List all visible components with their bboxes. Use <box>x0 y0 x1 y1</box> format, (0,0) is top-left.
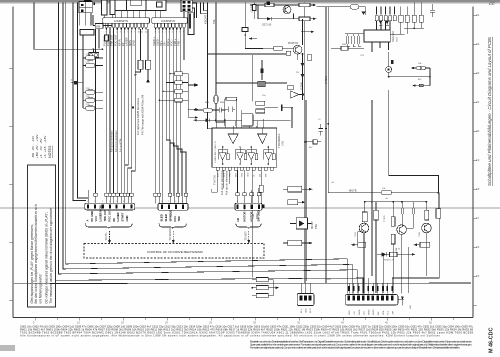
opto box U40 <box>290 218 311 229</box>
svg-text:TRK OUT: TRK OUT <box>110 34 114 46</box>
svg-text:Schaltpläne und Platinenabbild: Schaltpläne und Platinenabbildungen · Ci… <box>487 36 492 186</box>
resistor R301 <box>362 212 367 222</box>
svg-text:2: 2 <box>168 201 169 203</box>
svg-text:LASER: LASER <box>116 212 120 221</box>
svg-text:S-TDK: S-TDK <box>324 76 328 84</box>
op-amp cell 2 <box>235 147 246 165</box>
svg-text:KW(P) .47: KW(P) .47 <box>384 259 395 261</box>
wire long vertical x63 <box>63 3 352 294</box>
resistor R95 + arrow <box>283 186 313 245</box>
left ruler ticks <box>9 68 13 300</box>
electrolytic C210 <box>261 69 264 73</box>
wire long vertical x77.5 <box>78 3 89 198</box>
svg-text:4: 4 <box>258 201 259 203</box>
svg-text:20: 20 <box>476 129 480 133</box>
wire base <box>263 47 293 49</box>
ladder rail arrow <box>188 84 194 86</box>
comb wires from strip X2 <box>156 29 186 196</box>
cap C80 on bus <box>305 124 323 144</box>
IC drop wire <box>371 100 373 276</box>
connector A brace <box>86 224 133 229</box>
svg-text:um Näherungswerte!: um Näherungswerte! <box>39 274 43 304</box>
resistor R303 <box>391 217 395 227</box>
base resistor R205 <box>274 46 282 50</box>
extra right-top components <box>404 3 435 30</box>
svg-text:CONTROL OF CD DRIVE MECHANISM: CONTROL OF CD DRIVE MECHANISM <box>147 250 203 254</box>
wire q4 <box>166 29 170 193</box>
svg-text:1: 1 <box>87 201 88 203</box>
wire bus vertical x216 <box>216 3 287 83</box>
svg-text:3: 3 <box>175 201 176 203</box>
op-amp triangle A <box>228 134 238 144</box>
wire p10 (through R110) <box>140 29 142 61</box>
resistor R203 <box>299 17 310 21</box>
svg-text:GND: GND <box>248 172 250 177</box>
resistor R201 <box>265 3 274 7</box>
small arrows mid <box>132 107 199 119</box>
svg-text:AF R: AF R <box>309 308 312 313</box>
resistor R62 vertical <box>259 185 263 192</box>
trio labels <box>355 188 421 262</box>
cap C215 <box>265 105 293 111</box>
op-amp U30 body <box>212 128 277 167</box>
svg-text:GND: GND <box>349 310 351 315</box>
wire bus x216 continues <box>216 83 225 122</box>
connector D label <box>300 308 312 313</box>
resistor R80 <box>313 140 317 144</box>
resistor R50 pill <box>203 108 212 112</box>
svg-text:GN5: GN5 <box>282 140 285 146</box>
svg-text:LD: LD <box>236 218 240 222</box>
feeder wire <box>82 35 84 108</box>
wire step <box>389 90 439 193</box>
svg-text:TO MOT: TO MOT <box>245 231 248 241</box>
IC pin label column inside left <box>215 141 217 163</box>
svg-text:M 46-CDC: M 46-CDC <box>489 327 495 353</box>
connector K1 pins <box>81 0 190 12</box>
svg-text:DC-voltages measured against m: DC-voltages measured against minus termi… <box>45 212 49 304</box>
resistor R112 <box>419 15 423 22</box>
connector K1 housing <box>79 2 92 13</box>
wires down left <box>252 55 254 101</box>
svg-text:SLED: SLED <box>160 214 164 221</box>
wire lower rail <box>258 18 313 20</box>
wire L1 <box>95 29 97 193</box>
resistor R90 <box>382 191 392 195</box>
connector D wires up <box>301 281 310 294</box>
emitter wire <box>297 54 299 60</box>
top small resistor R102 <box>350 5 359 9</box>
wire bus pair x304.3 <box>303 3 305 284</box>
svg-text:4: 4 <box>182 201 183 203</box>
transistor T303 <box>422 223 432 233</box>
transistor T202 <box>293 45 302 54</box>
IC2 extra bottom wires <box>212 170 230 192</box>
diode D202 <box>301 63 305 67</box>
R40x feed wires <box>252 280 273 296</box>
wire bus y280.3 <box>56 252 364 294</box>
pin numbers row <box>105 31 185 33</box>
box P <box>288 85 294 89</box>
wire row 1 <box>197 109 225 111</box>
diode D50 <box>206 118 210 122</box>
svg-text:SLED: SLED <box>164 214 168 221</box>
wire to comparator <box>388 73 390 77</box>
wire trimmer feed <box>93 49 95 52</box>
svg-text:1733: 1733 <box>86 104 90 106</box>
svg-text:24: 24 <box>476 13 480 17</box>
rail wire y5 <box>250 4 313 6</box>
wire p2 <box>109 29 111 193</box>
cap C110 <box>430 4 435 17</box>
svg-text:1734: 1734 <box>86 62 90 64</box>
wire p8 <box>128 29 132 193</box>
svg-text:Foil opt on elevtrwise: Foil opt on elevtrwise <box>220 170 224 195</box>
svg-text:LED: LED <box>410 304 412 309</box>
svg-text:PU GND: PU GND <box>103 36 107 46</box>
right ruler ticks with grid numbers <box>473 15 477 305</box>
svg-text:MUTE: MUTE <box>373 308 375 315</box>
svg-text:TRL: TRL <box>212 19 216 24</box>
resistor RP1 <box>86 56 96 60</box>
svg-text:PN The range with KDM F/Osc.SM: PN The range with KDM F/Osc.SM <box>141 95 145 135</box>
resistor R210 dark <box>258 81 266 87</box>
svg-text:5: 5 <box>116 201 117 203</box>
IC bottom pins <box>372 42 389 52</box>
svg-text:SP +: SP + <box>159 40 163 46</box>
svg-text:KB: KB <box>96 24 100 28</box>
resistor RP3 <box>86 90 96 94</box>
svg-text:-BR -8V ... -12V: -BR -8V ... -12V <box>31 136 35 158</box>
svg-text:CT635: CT635 <box>384 215 386 222</box>
right vertical <box>392 193 439 278</box>
collector wire down <box>302 53 304 100</box>
svg-text:2: 2 <box>94 201 95 203</box>
wire q8 <box>180 29 186 193</box>
cap C50 <box>219 108 221 113</box>
wire row 2 <box>197 119 291 121</box>
resistor R97 + arrow <box>288 200 298 205</box>
svg-text:MUTE: MUTE <box>349 188 357 192</box>
resistor R111b <box>412 15 416 22</box>
resistor R103 <box>341 46 348 50</box>
wire x216 link <box>215 103 217 128</box>
svg-text:LOUDSP IN: LOUDSP IN <box>161 19 175 23</box>
wire bus pair x328.2 <box>327 7 329 193</box>
header strip X1 <box>103 18 150 23</box>
IC bottom pin squares <box>216 167 273 170</box>
wire stubs from grid J3 <box>201 3 208 14</box>
svg-text:START: START <box>121 212 125 221</box>
resistor RP4 <box>86 98 96 102</box>
resistor R52 vertical pill <box>214 95 218 103</box>
resistor R51 <box>226 97 237 100</box>
wire to right <box>391 192 439 194</box>
collector wire up + tap <box>303 19 312 45</box>
svg-text:+5V: +5V <box>354 311 356 315</box>
svg-text:Gleichspannungen bei „PLAY“ ge: Gleichspannungen bei „PLAY“ gegen Masse … <box>30 224 34 303</box>
arrow out <box>273 287 275 289</box>
svg-text:NOTES: NOTES <box>48 145 52 158</box>
svg-text:GND: GND <box>125 215 129 221</box>
ground G1 <box>134 70 137 75</box>
connector E <box>345 295 398 306</box>
svg-text:22: 22 <box>476 71 480 75</box>
bottom legend band 2 <box>250 339 472 349</box>
IC bottom pin labels <box>217 172 268 177</box>
svg-text:TRK +: TRK + <box>173 38 177 46</box>
bar over K2 <box>84 0 92 2</box>
wire p3 <box>113 29 115 193</box>
svg-text:FOC +: FOC + <box>166 38 170 46</box>
white box W2 <box>110 0 115 15</box>
svg-text:OUT: OUT <box>326 277 332 281</box>
output arrow marker <box>401 297 404 300</box>
IC top pin ticks <box>225 110 263 134</box>
resistor R96 + arrow <box>288 186 302 192</box>
strip X1 pin boxes <box>105 23 185 27</box>
trimmer P1 wipers <box>90 54 93 57</box>
left feed wires <box>89 29 104 193</box>
wire bus pair x326 <box>325 7 327 284</box>
wire into IC left <box>331 47 364 49</box>
svg-text:T645: T645 <box>419 231 421 237</box>
bottom legend band 1 <box>20 324 474 337</box>
wire bus KDC continues to DAC <box>208 54 213 129</box>
wire p1 <box>105 29 107 35</box>
svg-text:LASER MON: LASER MON <box>99 205 103 221</box>
svg-text:Foil opt on elevtrwise: Foil opt on elevtrwise <box>110 130 113 152</box>
svg-text:TBA: TBA <box>314 224 318 229</box>
svg-text:3: 3 <box>251 201 252 203</box>
box KB <box>93 3 197 28</box>
op-amp cell 3 <box>247 147 258 165</box>
svg-text:Foil opt on elevtrwise: Foil opt on elevtrwise <box>115 130 118 152</box>
wire p6 <box>124 29 126 193</box>
wire q5 <box>170 29 174 196</box>
transistor T302 <box>397 225 407 235</box>
diodes above IC <box>379 21 389 25</box>
resistor ladder R120-R123 <box>159 72 198 102</box>
svg-text:VDD: VDD <box>242 172 244 177</box>
svg-text:TO SERVO: TO SERVO <box>169 228 172 240</box>
resistor RP5 <box>86 106 96 110</box>
connector D <box>297 294 314 306</box>
svg-text:MON: MON <box>128 40 132 46</box>
svg-text:A: A <box>85 220 89 222</box>
svg-text:1733: 1733 <box>86 88 90 90</box>
resistor R402 <box>256 286 268 290</box>
connector E labels <box>349 308 394 315</box>
resistor R215 <box>256 101 265 105</box>
svg-text:Foil opt KDM: Foil opt KDM <box>120 139 123 152</box>
resistor R401 <box>256 278 268 282</box>
box ZT <box>307 55 311 61</box>
IC U1 outer body <box>113 0 167 11</box>
connector A signal labels (rotated) <box>85 205 129 221</box>
connector grid J3 <box>181 0 192 12</box>
svg-text:The measured values given in t: The measured values given in the circuit… <box>49 208 53 304</box>
svg-text:GND: GND <box>306 308 308 313</box>
svg-text:RF: RF <box>112 218 116 222</box>
svg-text:TDA/M/DA: TDA/M/DA <box>277 134 281 148</box>
svg-text:TRK -: TRK - <box>177 39 181 46</box>
crystal box X1 <box>242 114 253 126</box>
svg-text:DRV: DRV <box>255 213 259 219</box>
svg-text:For signal see KDM5 Elevations: For signal see KDM5 Elevations <box>136 97 140 135</box>
svg-text:CC: CC <box>489 1 495 6</box>
wire KB link <box>93 25 95 27</box>
top feed cluster x245 <box>242 2 270 49</box>
wire p9 <box>131 29 135 193</box>
svg-text:FOC OUT: FOC OUT <box>113 34 117 46</box>
schematic border left <box>12 7 14 318</box>
wire q9 <box>183 29 185 60</box>
diode D201 <box>267 17 272 21</box>
svg-text:TDA: TDA <box>251 214 255 219</box>
svg-text:MC05T-R: MC05T-R <box>288 42 299 45</box>
cap C303 bars <box>412 208 415 214</box>
svg-text:+b: +b <box>70 80 72 82</box>
top rail <box>364 201 426 203</box>
svg-text:1N: 1N <box>296 72 299 74</box>
feeder box KC <box>80 30 94 36</box>
wire J3 to strip <box>192 3 196 18</box>
svg-text:18: 18 <box>476 187 480 191</box>
ladder output wires <box>182 74 188 100</box>
svg-text:KW: KW <box>378 312 380 315</box>
header strip X2 <box>152 18 188 23</box>
scanner top edge bar <box>0 0 500 2</box>
svg-text:1: 1 <box>237 201 238 203</box>
+b junction mark <box>75 82 78 85</box>
svg-text:5 GND 4 REF 3 VDD 2 L 1: 5 GND 4 REF 3 VDD 2 L 1 <box>215 141 217 163</box>
arrow out right lower <box>313 18 316 20</box>
svg-text:SLED +: SLED + <box>152 37 156 46</box>
resistor R105 (vertical, on p1) <box>105 35 109 41</box>
cap C302 bars <box>401 208 404 214</box>
wire long vertical x58 <box>59 3 358 294</box>
connector B dashed arrow <box>172 231 175 244</box>
resistor R231 <box>419 84 423 87</box>
wire q7 <box>177 29 182 196</box>
svg-text:TRK: TRK <box>177 216 181 222</box>
schematic border right <box>472 7 474 318</box>
resistor R306 + arrow <box>358 242 366 247</box>
transistor T201 <box>283 6 291 14</box>
resistor R216 <box>256 109 265 113</box>
connector A pin numbers <box>87 201 132 203</box>
comb wires from strip X1 <box>105 29 151 193</box>
svg-text:7: 7 <box>131 201 132 203</box>
bead filters on wires <box>94 193 133 196</box>
cap C51 <box>226 106 235 111</box>
page fold line <box>0 207 500 209</box>
wire q1 <box>155 29 157 193</box>
op-amp U20 <box>291 91 299 98</box>
drops to connector E <box>384 247 409 293</box>
wire p7 <box>125 29 129 193</box>
connector J3 pins <box>182 1 185 4</box>
resistor R230 pills <box>416 66 420 70</box>
svg-text:T625: T625 <box>355 231 357 237</box>
trio emitter drops <box>364 220 426 294</box>
svg-text:PU VCC: PU VCC <box>106 36 110 46</box>
svg-text:KDC/4T: KDC/4T <box>204 14 208 24</box>
svg-text:GN4: GN4 <box>397 37 399 42</box>
wire drop <box>257 5 259 19</box>
svg-text:1734: 1734 <box>86 54 90 56</box>
svg-text:For repairs use original spare: For repairs use original spare parts onl… <box>250 346 460 350</box>
IC top components <box>193 95 290 128</box>
IC U1 inner notch <box>131 0 142 6</box>
connector C brace <box>236 224 261 229</box>
svg-text:1733: 1733 <box>86 96 90 98</box>
connector A dashed arrow <box>108 231 111 244</box>
box W <box>286 51 290 55</box>
sprinkled supply labels <box>205 44 422 200</box>
wires from top into decoder <box>377 7 395 15</box>
svg-text:LASER: LASER <box>125 37 129 46</box>
svg-text:CLK: CLK <box>364 310 366 315</box>
svg-text:FOC -: FOC - <box>170 39 174 46</box>
resistor R305 <box>436 209 441 219</box>
svg-text:WSEL: WSEL <box>368 308 370 315</box>
wire q3 <box>162 29 164 196</box>
svg-text:17: 17 <box>476 216 480 220</box>
supply arrow +5 <box>147 79 150 82</box>
resistor R111 <box>146 60 151 69</box>
svg-text:DATA: DATA <box>358 309 361 315</box>
svg-text:SPINDLE: SPINDLE <box>168 210 172 222</box>
svg-text:MOTOR +: MOTOR + <box>243 209 247 222</box>
svg-text:SP -: SP - <box>162 41 166 46</box>
connector C (X22) <box>235 188 265 244</box>
wire from R111 to +5 <box>147 69 149 79</box>
connector K2 pins <box>94 3 95 5</box>
diode D203 <box>301 74 305 78</box>
wire q6 <box>173 29 178 193</box>
junction dots on buses <box>251 53 439 289</box>
svg-text:TO CTL: TO CTL <box>105 231 108 240</box>
op-amp cell 1 <box>218 147 229 165</box>
dashed control box <box>84 244 264 259</box>
svg-text:FOC OUT: FOC OUT <box>107 209 111 221</box>
svg-text:SLED -: SLED - <box>155 38 159 46</box>
wire loop left <box>328 124 381 193</box>
diode D310 row <box>377 253 412 255</box>
resistor RP2 <box>86 63 96 67</box>
svg-text:D271-30: D271-30 <box>262 24 272 27</box>
diode row <box>375 16 378 21</box>
svg-text:1: 1 <box>161 201 162 203</box>
svg-text:SAA7210: SAA7210 <box>391 30 395 42</box>
ladder input stubs <box>160 74 175 100</box>
resistor R403 <box>256 294 268 298</box>
mid-wire rotated annotations <box>110 130 122 152</box>
svg-text:15: 15 <box>476 274 480 278</box>
connector E wires up <box>349 278 392 294</box>
svg-text:VSS: VSS <box>230 172 232 177</box>
op-amp triangle B <box>258 134 267 144</box>
svg-text:+BR: +BR <box>392 310 394 315</box>
wire bus pair x306 lower <box>305 100 307 281</box>
junction to IC top <box>291 107 293 109</box>
connector A (X20) <box>85 190 135 244</box>
wire bus y283.5 <box>14 282 471 285</box>
junction dot <box>102 48 104 50</box>
left pill resistor bank <box>71 30 103 111</box>
